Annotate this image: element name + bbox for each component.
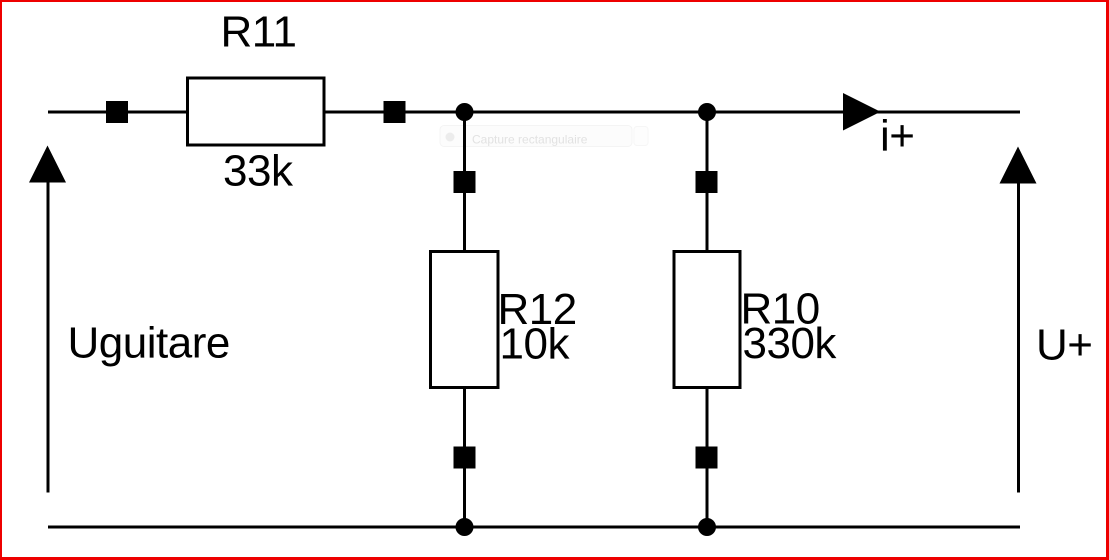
svg-text:10k: 10k: [500, 320, 571, 369]
svg-text:Capture rectangulaire: Capture rectangulaire: [472, 133, 588, 147]
svg-text:Uguitare: Uguitare: [68, 319, 230, 368]
svg-text:i+: i+: [880, 112, 914, 161]
svg-text:330k: 330k: [743, 319, 838, 368]
svg-text:R11: R11: [221, 8, 297, 57]
svg-text:33k: 33k: [223, 147, 294, 196]
svg-text:U+: U+: [1036, 321, 1092, 370]
